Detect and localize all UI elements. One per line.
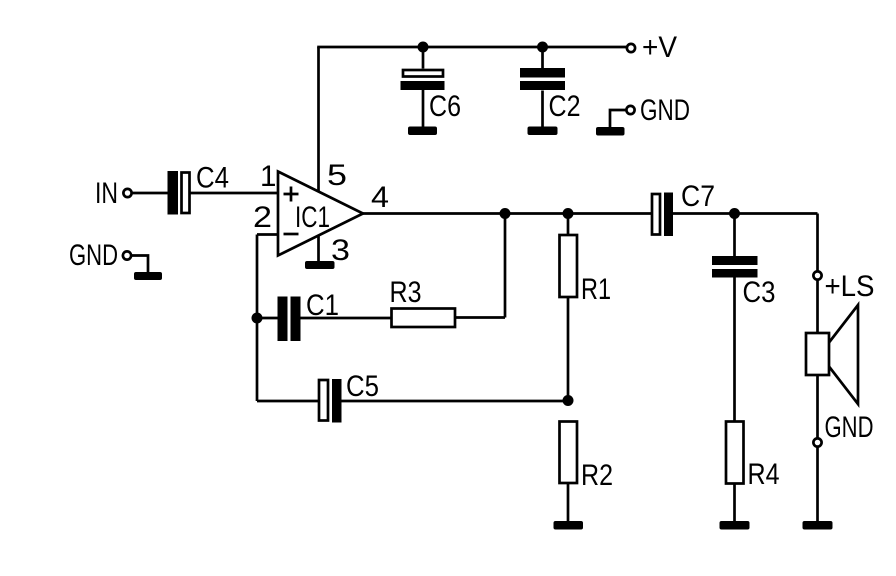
ground bar pin 3 <box>305 261 335 269</box>
svg-text:+V: +V <box>642 31 677 64</box>
wire C5 run left <box>257 400 318 403</box>
wire speaker to ground <box>816 446 819 521</box>
terminal GND (top right) <box>610 94 690 127</box>
svg-text:+LS: +LS <box>825 270 875 303</box>
speaker LS <box>806 279 858 439</box>
capacitor C1 <box>257 289 392 341</box>
wire pin 3 <box>317 235 320 261</box>
capacitor C4 <box>168 162 230 215</box>
terminal GND (input) <box>69 239 148 272</box>
svg-text:GND: GND <box>69 239 118 272</box>
svg-text:2: 2 <box>253 201 272 234</box>
svg-text:C4: C4 <box>196 162 229 195</box>
junction dot R1/R2/C5 <box>563 395 574 406</box>
capacitor C5 <box>319 370 379 423</box>
wire pin 2 <box>257 233 278 236</box>
terminal +V <box>627 31 677 64</box>
svg-text:IC1: IC1 <box>295 201 330 234</box>
resistor R4 <box>726 422 780 522</box>
ground bar top right <box>596 127 625 136</box>
capacitor C2 <box>520 47 581 127</box>
wire C5 to R2 node <box>341 400 568 403</box>
resistor R1 <box>560 214 612 401</box>
wire C4 to pin 1 <box>191 192 279 195</box>
svg-text:R3: R3 <box>390 276 422 309</box>
svg-text:C7: C7 <box>681 180 715 213</box>
svg-text:R4: R4 <box>748 458 780 491</box>
svg-text:IN: IN <box>95 177 118 210</box>
wire +V rail <box>317 46 627 49</box>
svg-text:C1: C1 <box>306 289 339 322</box>
ground bar under C2 <box>528 127 558 136</box>
wire pin 5 vertical <box>317 47 320 192</box>
ground bar under C6 <box>408 127 437 136</box>
svg-text:C5: C5 <box>346 370 379 403</box>
capacitor C7 <box>652 180 715 236</box>
wire feedback right vertical <box>504 214 507 318</box>
svg-text:5: 5 <box>327 159 347 192</box>
junction dot rail/C2 <box>537 42 548 53</box>
svg-text:R2: R2 <box>581 459 613 492</box>
junction dot output/feedback <box>500 208 511 219</box>
capacitor C3 <box>712 214 776 422</box>
svg-text:R1: R1 <box>581 273 611 306</box>
terminal +LS <box>813 270 874 303</box>
op-amp IC1 <box>278 172 363 256</box>
resistor R2 <box>560 422 614 522</box>
resistor R3 <box>390 276 456 327</box>
svg-text:4: 4 <box>371 181 389 214</box>
ground bar under R4 <box>720 521 750 530</box>
junction dot output/R1 <box>563 208 574 219</box>
wire output <box>363 212 651 215</box>
wire feedback left vertical <box>256 235 259 402</box>
junction dot node C1 <box>252 313 263 324</box>
svg-text:GND: GND <box>640 94 690 127</box>
wire R3 to feedback node <box>455 316 505 319</box>
terminal IN <box>95 177 132 210</box>
wire C7 to corner <box>673 212 818 215</box>
junction dot C3 node <box>729 208 740 219</box>
junction dot rail/C6 <box>418 42 429 53</box>
svg-text:C6: C6 <box>429 90 461 123</box>
ground bar under R2 <box>554 521 584 530</box>
svg-text:GND: GND <box>825 411 874 444</box>
wire IN to C4 <box>132 192 168 195</box>
svg-text:C2: C2 <box>549 90 581 123</box>
ground bar input <box>134 272 162 280</box>
terminal GND (speaker) <box>813 411 873 447</box>
ground bar under speaker <box>803 521 833 530</box>
capacitor C6 <box>401 47 462 127</box>
svg-text:1: 1 <box>260 160 276 193</box>
svg-text:C3: C3 <box>743 276 776 309</box>
wire output corner to +LS <box>816 214 819 272</box>
